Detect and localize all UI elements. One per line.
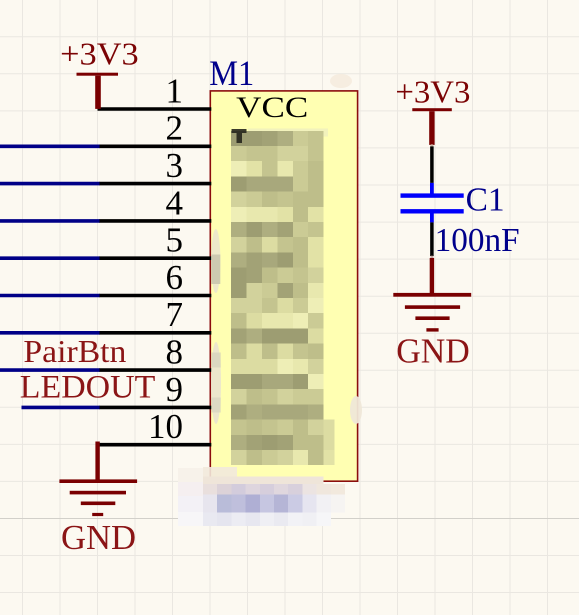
svg-text:100nF: 100nF bbox=[435, 222, 520, 259]
redacted pin names (pixelation blocks) bbox=[231, 128, 335, 465]
wire net to pin 7 bbox=[0, 331, 100, 335]
svg-text:6: 6 bbox=[166, 258, 184, 297]
svg-text:M1: M1 bbox=[209, 53, 254, 93]
svg-text:9: 9 bbox=[166, 370, 184, 409]
ground symbol GND (right): bar3 bbox=[415, 316, 449, 320]
power symbol +3V3 (left): bar bbox=[77, 73, 119, 76]
svg-text:GND: GND bbox=[61, 519, 136, 557]
ground symbol GND (left): bar3 bbox=[81, 502, 116, 506]
svg-text:C1: C1 bbox=[466, 182, 505, 219]
pin 4 of M1 (black pin line) bbox=[99, 219, 211, 223]
svg-text:LEDOUT: LEDOUT bbox=[20, 369, 156, 405]
pin 1 of M1 (black pin line) bbox=[98, 107, 212, 111]
pin 5 of M1 (black pin line) bbox=[99, 256, 211, 260]
wire net to pin 4 bbox=[0, 219, 100, 223]
capacitor C1: bottom plate bbox=[401, 209, 464, 213]
component M1 body bbox=[210, 91, 357, 481]
svg-text:7: 7 bbox=[166, 295, 184, 334]
svg-text:10: 10 bbox=[148, 407, 183, 446]
wire net to pin 8 bbox=[0, 368, 100, 372]
svg-text:+3V3: +3V3 bbox=[60, 35, 139, 71]
wire +3V3 to C1 bbox=[430, 146, 434, 183]
right GND: stem wire bbox=[430, 258, 434, 295]
svg-text:VCC: VCC bbox=[236, 91, 308, 124]
left GND: stem wire bbox=[95, 442, 99, 482]
pin 10 of M1 (black pin line) bbox=[98, 443, 212, 447]
redacted text below component (pixelation blocks) bbox=[178, 467, 345, 526]
ground symbol GND (left): bar2 bbox=[70, 491, 126, 495]
svg-text:2: 2 bbox=[166, 109, 184, 148]
pin 3 of M1 (black pin line) bbox=[99, 182, 211, 186]
ground symbol GND (right): bar4 bbox=[426, 328, 438, 331]
partial letter of redacted pin 2 name bbox=[232, 129, 247, 143]
pin 6 of M1 (black pin line) bbox=[99, 294, 211, 298]
ground symbol GND (right): bar1 bbox=[393, 293, 471, 297]
svg-text:+3V3: +3V3 bbox=[395, 73, 470, 109]
capacitor C1: top plate bbox=[401, 193, 464, 197]
wire C1 to GND bbox=[430, 222, 434, 256]
junction dot bbox=[430, 144, 433, 147]
ground symbol GND (right): bar2 bbox=[405, 305, 460, 309]
wire net to pin 9 bbox=[22, 406, 100, 410]
blur spill smudges bbox=[211, 229, 220, 293]
power symbol +3V3 (right): bar bbox=[412, 108, 452, 111]
capacitor C1: top pin stub bbox=[430, 183, 434, 194]
wire net to pin 5 bbox=[0, 256, 100, 260]
pin 9 of M1 (black pin line) bbox=[99, 406, 211, 410]
svg-text:5: 5 bbox=[166, 221, 184, 260]
wire net to pin 6 bbox=[0, 294, 100, 298]
svg-text:GND: GND bbox=[396, 332, 470, 370]
pin 2 of M1 (black pin line) bbox=[99, 145, 211, 149]
svg-text:4: 4 bbox=[166, 183, 184, 222]
pin 8 of M1 (black pin line) bbox=[99, 368, 211, 372]
svg-text:PairBtn: PairBtn bbox=[23, 333, 126, 369]
wire net to pin 3 bbox=[0, 182, 100, 186]
ground symbol GND (left): bar4 bbox=[92, 513, 103, 516]
pin 7 of M1 (black pin line) bbox=[99, 331, 211, 335]
junction dot bbox=[430, 256, 433, 259]
ground symbol GND (left): bar1 bbox=[59, 479, 137, 483]
power symbol +3V3 (right): stem wire bbox=[429, 111, 434, 145]
power symbol +3V3 (left): stem wire bbox=[95, 76, 101, 109]
wire net to pin 2 bbox=[0, 145, 100, 149]
svg-text:3: 3 bbox=[166, 146, 184, 185]
svg-text:8: 8 bbox=[166, 333, 184, 372]
svg-text:1: 1 bbox=[166, 71, 184, 110]
capacitor C1: bottom pin stub bbox=[430, 214, 434, 223]
